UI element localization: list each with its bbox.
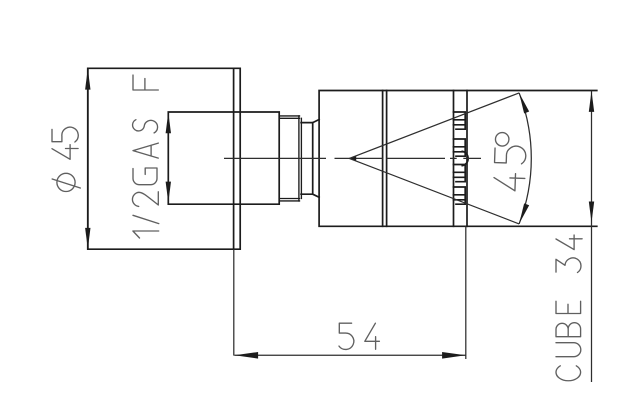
nozzle tooth 3 (454, 165, 466, 182)
nozzle tooth 1 (454, 112, 466, 129)
dimension line D45 (87, 68, 89, 249)
label 1/2GAS F (132, 75, 158, 238)
neck chamfer bottom (313, 194, 319, 197)
extension line right 54 (465, 226, 467, 359)
arrow 54 left (235, 352, 259, 359)
collar ledge top (279, 116, 299, 118)
label 45deg (494, 132, 527, 191)
spray cone upper line (349, 93, 519, 158)
extension line left 54 (233, 249, 235, 355)
dimension line 54 (234, 354, 465, 356)
arrow thread down (166, 182, 171, 203)
extension line top right (467, 90, 597, 92)
vertex arrowhead (349, 156, 356, 161)
nozzle tooth 4 (454, 187, 466, 204)
centerline (224, 157, 481, 159)
arrow thread up (166, 112, 171, 133)
arrow D45 down (85, 228, 90, 249)
nozzle face line (453, 91, 455, 227)
collar ledge bottom (279, 199, 299, 201)
arc arrow top (519, 93, 529, 114)
arrow D45 up (85, 69, 90, 90)
central nozzle tip (462, 151, 468, 165)
arc arrow bottom (519, 203, 529, 224)
arrow CUBE34 down (589, 202, 594, 223)
label CUBE 34 (556, 235, 582, 381)
extension line bottom right (467, 225, 597, 227)
dimension line CUBE34 (591, 91, 593, 382)
wall flange plate (88, 68, 240, 249)
body outline (319, 91, 467, 227)
label 54 (339, 323, 379, 349)
neck chamfer top (313, 120, 319, 123)
connector nut body (168, 112, 279, 204)
body joint lines (383, 91, 387, 227)
label D45 (52, 127, 80, 191)
angle dimension arc (519, 93, 531, 224)
nozzle tooth 2 (454, 139, 466, 156)
collar ring edges (299, 116, 302, 201)
arrow CUBE34 up (589, 91, 594, 112)
flange inner face line (233, 68, 235, 249)
neck outline (301, 123, 313, 195)
arrow 54 right (442, 352, 466, 359)
spray cone lower line (349, 158, 519, 224)
